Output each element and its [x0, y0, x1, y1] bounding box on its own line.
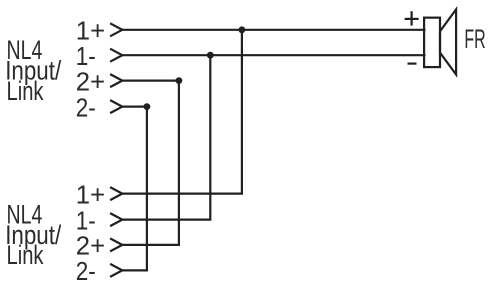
label NL4 Input/Link (top connector J1) — [5, 35, 61, 106]
wire link 1+ bottom horizontal and vertical riser — [122, 30, 242, 194]
pin arrow 1- (top J1) — [110, 49, 122, 62]
pin arrow 1- (bottom J2) — [110, 213, 122, 226]
wire link 2+ bottom horizontal and vertical riser — [122, 81, 179, 245]
svg-text:2-: 2- — [76, 256, 96, 286]
wire 1+ top to speaker + — [122, 29, 425, 31]
speaker FR cone — [440, 9, 456, 74]
wire 2+ top horizontal — [122, 79, 179, 81]
pin arrow 2+ (bottom J2) — [110, 238, 122, 251]
junction dot on 2- wire — [144, 103, 151, 110]
label NL4 Input/Link (bottom connector J2) — [5, 199, 61, 270]
svg-text:Link: Link — [7, 240, 44, 270]
junction dot on 2+ wire — [176, 77, 183, 84]
wire link 1- bottom horizontal and vertical riser — [122, 55, 210, 219]
polarity - at speaker — [408, 62, 417, 64]
junction dot on 1+ wire — [239, 26, 246, 33]
svg-text:2-: 2- — [76, 92, 96, 122]
pin arrow 1+ (top J1) — [110, 23, 122, 36]
junction dot on 1- wire — [207, 52, 214, 59]
wire link 2- bottom horizontal and vertical riser — [122, 107, 147, 271]
wire 2- top horizontal — [122, 105, 147, 107]
polarity + at speaker — [405, 11, 419, 25]
svg-text:FR: FR — [464, 24, 485, 54]
pin arrow 2+ (top J1) — [110, 74, 122, 87]
pin arrow 2- (bottom J2) — [110, 264, 122, 277]
speaker FR driver frame — [424, 18, 440, 67]
wire 1- top to speaker - — [122, 54, 425, 56]
pin arrow 2- (top J1) — [110, 100, 122, 113]
svg-text:Link: Link — [7, 76, 44, 106]
pin arrow 1+ (bottom J2) — [110, 187, 122, 200]
